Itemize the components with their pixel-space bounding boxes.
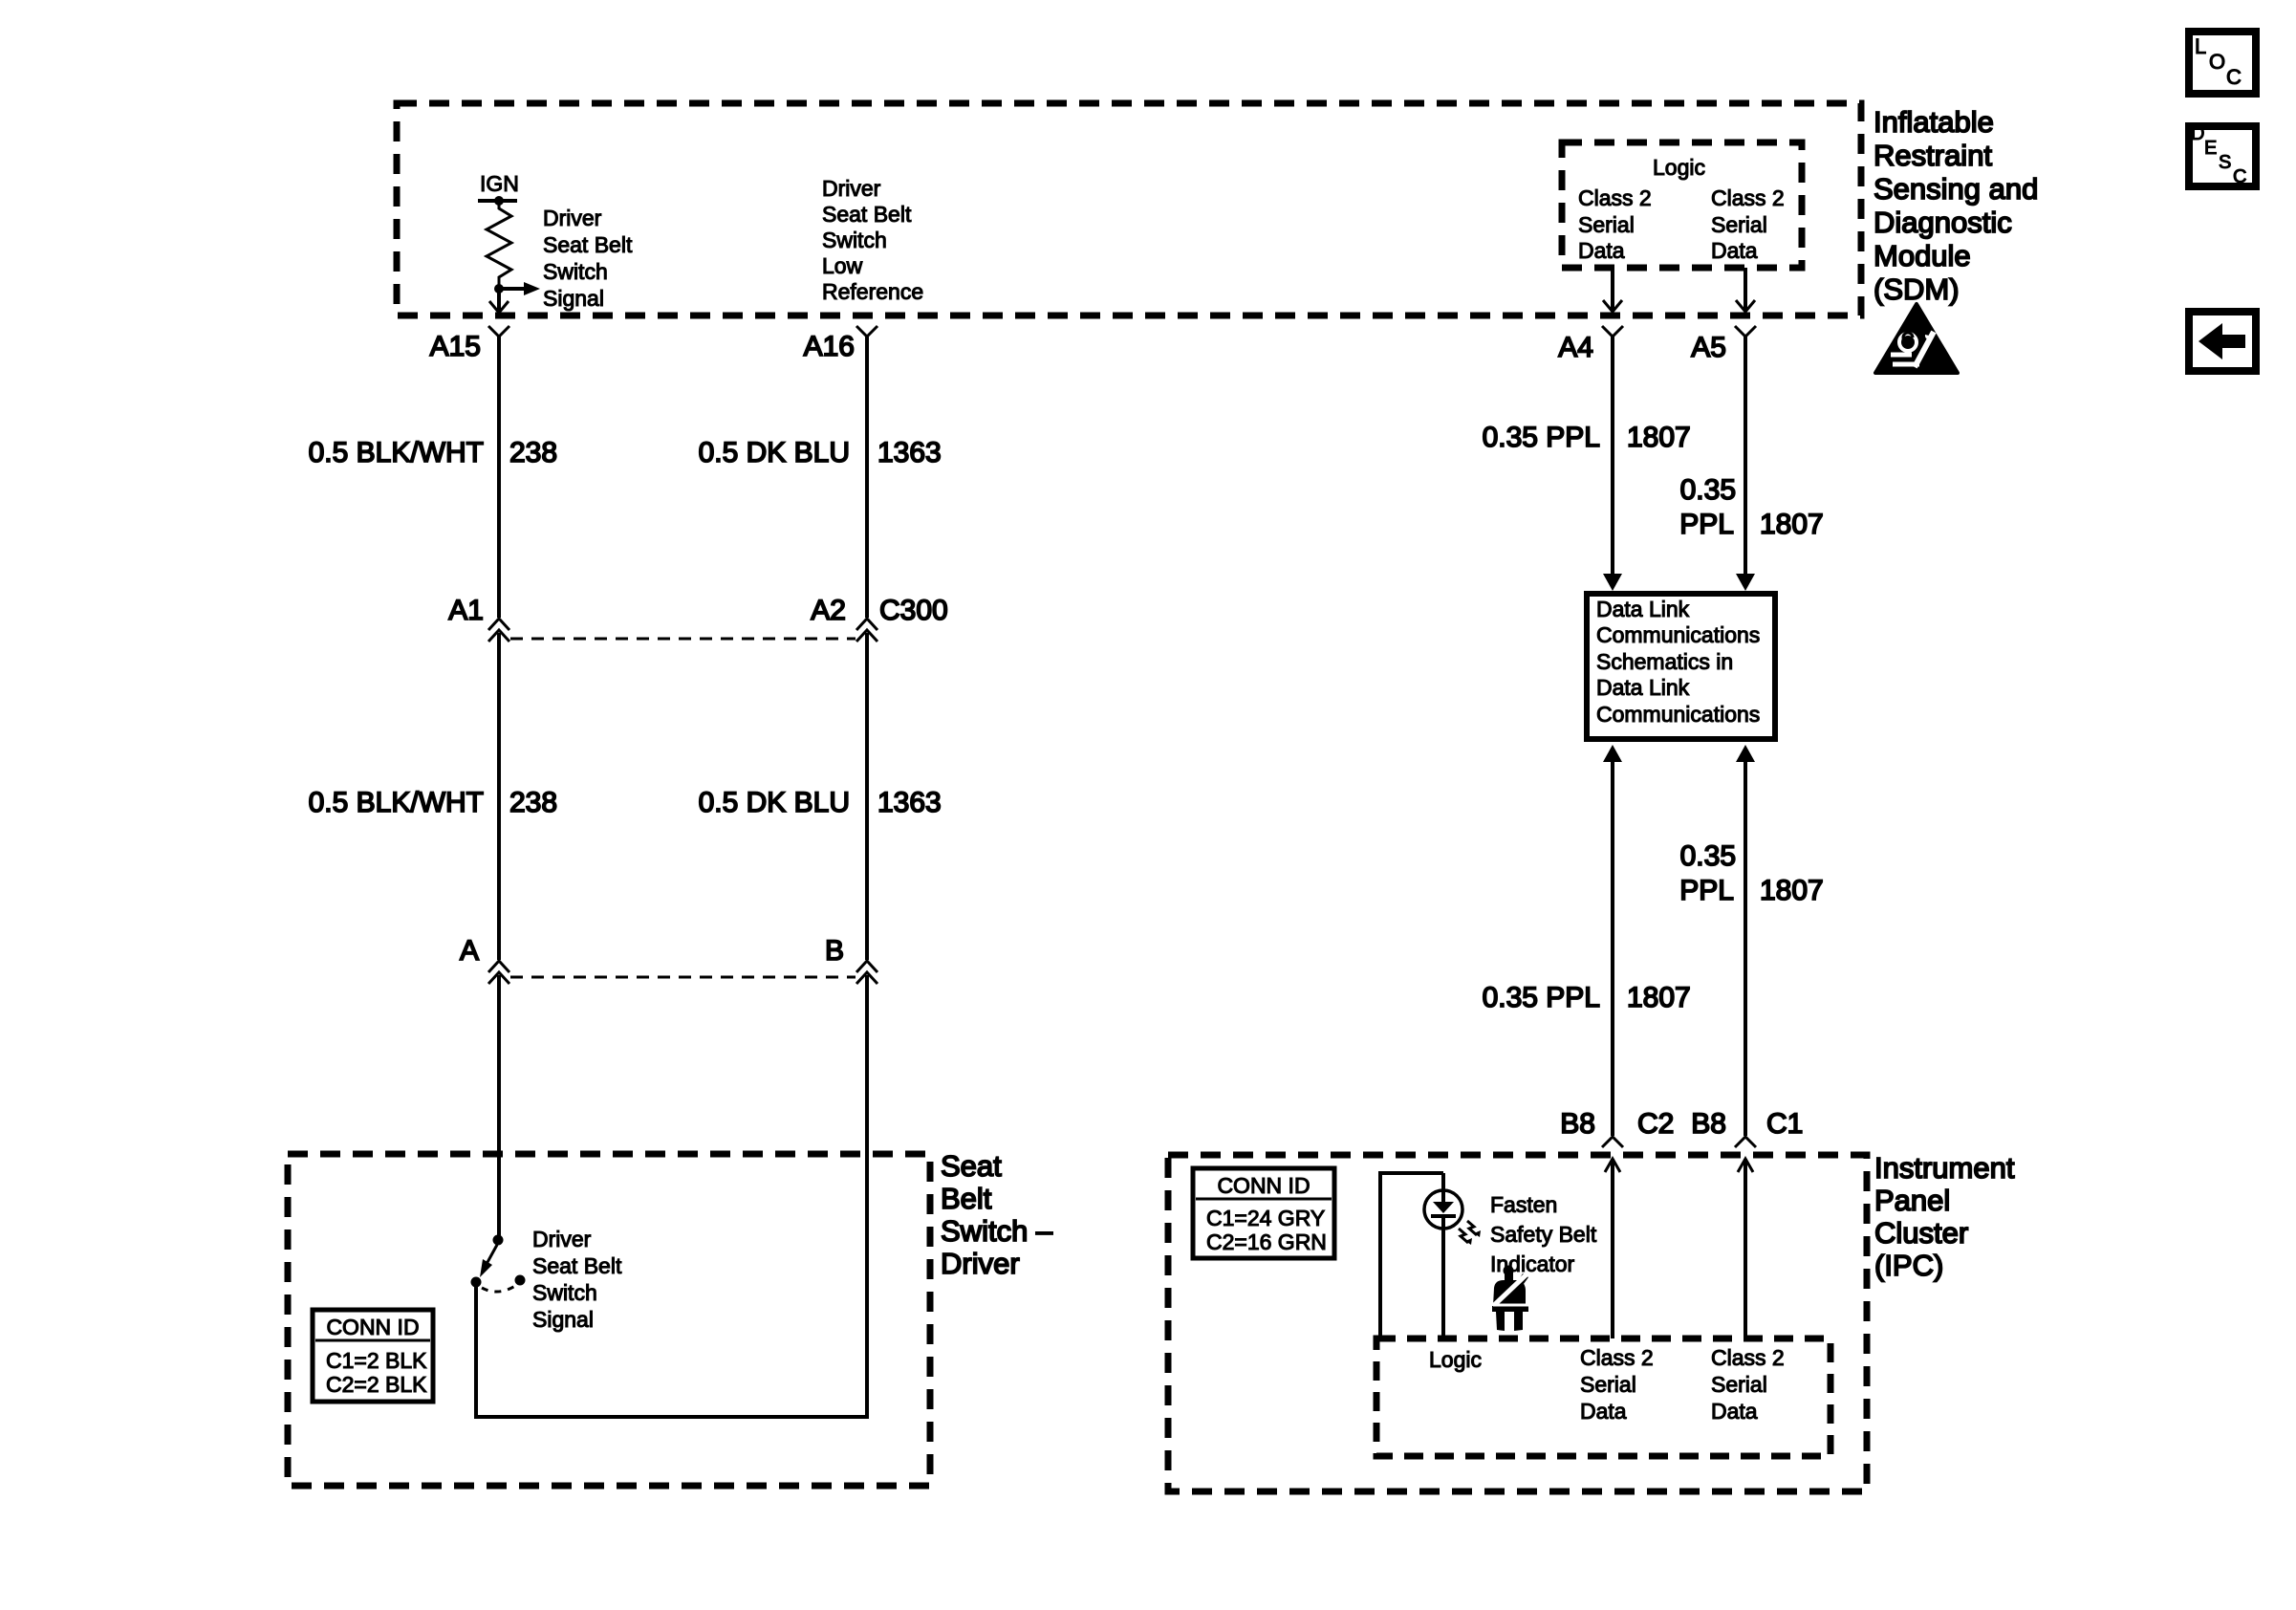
svg-text:O: O: [2209, 50, 2225, 74]
svg-text:Sensing and: Sensing and: [1874, 172, 2038, 206]
svg-text:Data: Data: [1580, 1399, 1627, 1424]
svg-text:Data Link: Data Link: [1596, 597, 1690, 621]
svg-text:CONN ID: CONN ID: [326, 1315, 419, 1339]
svg-text:Data: Data: [1578, 238, 1625, 263]
svg-text:1363: 1363: [877, 437, 942, 468]
svg-text:A4: A4: [1558, 332, 1593, 363]
svg-text:C2=16 GRN: C2=16 GRN: [1206, 1229, 1327, 1254]
svg-text:Communications: Communications: [1596, 622, 1760, 647]
svg-text:Driver: Driver: [543, 206, 602, 230]
svg-text:C2=2 BLK: C2=2 BLK: [326, 1372, 427, 1397]
svg-text:Driver: Driver: [532, 1227, 592, 1251]
svg-text:Serial: Serial: [1711, 212, 1767, 237]
svg-text:0.35 PPL: 0.35 PPL: [1483, 422, 1600, 453]
svg-text:0.5 BLK/WHT: 0.5 BLK/WHT: [309, 437, 484, 468]
svg-text:1807: 1807: [1760, 875, 1824, 906]
svg-text:Data: Data: [1711, 238, 1758, 263]
svg-text:Cluster: Cluster: [1874, 1216, 1968, 1250]
svg-text:Switch: Switch: [822, 228, 887, 252]
svg-text:Belt: Belt: [941, 1182, 992, 1215]
svg-text:Instrument: Instrument: [1874, 1151, 2015, 1185]
svg-text:Restraint: Restraint: [1874, 139, 1992, 172]
svg-text:1807: 1807: [1627, 422, 1691, 453]
svg-text:Logic: Logic: [1429, 1347, 1482, 1372]
svg-text:0.35: 0.35: [1680, 474, 1736, 506]
svg-text:0.5 BLK/WHT: 0.5 BLK/WHT: [309, 787, 484, 818]
svg-text:Serial: Serial: [1580, 1372, 1636, 1397]
svg-text:C300: C300: [879, 595, 948, 626]
svg-text:C1=2 BLK: C1=2 BLK: [326, 1348, 427, 1373]
svg-text:Communications: Communications: [1596, 702, 1760, 727]
svg-text:0.35 PPL: 0.35 PPL: [1483, 982, 1600, 1013]
svg-text:Inflatable: Inflatable: [1874, 105, 1994, 139]
svg-text:0.35: 0.35: [1680, 840, 1736, 872]
svg-text:C1: C1: [1766, 1108, 1803, 1140]
svg-text:D: D: [2191, 123, 2204, 144]
svg-text:Low: Low: [822, 253, 863, 278]
svg-text:Class 2: Class 2: [1711, 1345, 1785, 1370]
svg-text:Logic: Logic: [1653, 155, 1705, 180]
svg-text:Class 2: Class 2: [1578, 185, 1652, 210]
svg-text:1363: 1363: [877, 787, 942, 818]
svg-text:Switch: Switch: [532, 1280, 597, 1305]
svg-text:A: A: [460, 935, 479, 967]
svg-text:C2: C2: [1637, 1108, 1674, 1140]
svg-text:L: L: [2195, 34, 2206, 58]
svg-text:Data Link: Data Link: [1596, 675, 1690, 700]
svg-text:Seat Belt: Seat Belt: [822, 202, 912, 227]
svg-text:B: B: [825, 935, 844, 967]
svg-text:CONN ID: CONN ID: [1217, 1173, 1310, 1198]
svg-text:Seat Belt: Seat Belt: [543, 232, 633, 257]
svg-text:C: C: [2226, 65, 2242, 89]
svg-text:A2: A2: [811, 595, 846, 626]
svg-text:Diagnostic: Diagnostic: [1874, 206, 2012, 239]
svg-text:Indicator: Indicator: [1490, 1251, 1575, 1276]
svg-text:Seat: Seat: [941, 1149, 1002, 1183]
svg-text:S: S: [2219, 152, 2231, 173]
svg-text:C1=24 GRY: C1=24 GRY: [1206, 1206, 1325, 1230]
svg-text:0.5 DK BLU: 0.5 DK BLU: [699, 437, 850, 468]
svg-text:Fasten: Fasten: [1490, 1192, 1557, 1217]
svg-text:(IPC): (IPC): [1874, 1249, 1943, 1282]
svg-text:(SDM): (SDM): [1874, 272, 1960, 306]
svg-text:Module: Module: [1874, 239, 1971, 272]
svg-text:A1: A1: [448, 595, 484, 626]
svg-text:Seat Belt: Seat Belt: [532, 1253, 622, 1278]
svg-text:A15: A15: [430, 331, 481, 362]
svg-text:1807: 1807: [1760, 509, 1824, 540]
svg-text:0.5 DK BLU: 0.5 DK BLU: [699, 787, 850, 818]
svg-text:Panel: Panel: [1874, 1184, 1950, 1217]
svg-text:IGN: IGN: [480, 171, 519, 196]
svg-text:238: 238: [509, 787, 557, 818]
svg-text:C: C: [2233, 166, 2246, 187]
svg-text:PPL: PPL: [1679, 875, 1734, 906]
svg-text:Switch: Switch: [543, 259, 608, 284]
svg-text:Switch –: Switch –: [941, 1214, 1053, 1248]
svg-text:Schematics in: Schematics in: [1596, 649, 1733, 674]
svg-text:A5: A5: [1691, 332, 1726, 363]
svg-text:Serial: Serial: [1711, 1372, 1767, 1397]
svg-text:Serial: Serial: [1578, 212, 1635, 237]
svg-text:Class 2: Class 2: [1580, 1345, 1654, 1370]
svg-text:Signal: Signal: [532, 1307, 594, 1332]
svg-text:238: 238: [509, 437, 557, 468]
svg-text:B8: B8: [1691, 1108, 1726, 1140]
svg-text:Class 2: Class 2: [1711, 185, 1785, 210]
svg-text:Driver: Driver: [941, 1247, 1020, 1280]
svg-text:PPL: PPL: [1679, 509, 1734, 540]
svg-text:Signal: Signal: [543, 286, 604, 311]
svg-text:Data: Data: [1711, 1399, 1758, 1424]
svg-text:A16: A16: [804, 331, 855, 362]
svg-text:E: E: [2204, 138, 2217, 159]
svg-text:B8: B8: [1560, 1108, 1595, 1140]
svg-text:Reference: Reference: [822, 279, 923, 304]
svg-text:Safety Belt: Safety Belt: [1490, 1222, 1597, 1247]
svg-text:Driver: Driver: [822, 176, 881, 201]
svg-text:1807: 1807: [1627, 982, 1691, 1013]
